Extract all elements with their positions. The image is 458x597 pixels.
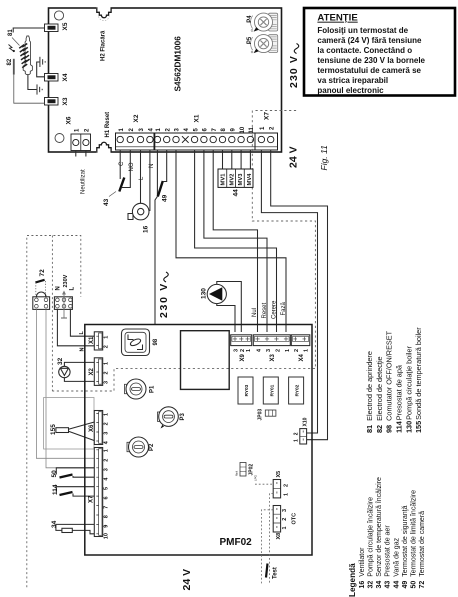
svg-text:98Comutator OFF/ON/RESET: 98Comutator OFF/ON/RESET — [385, 330, 394, 433]
svg-text:114Presostat de apă: 114Presostat de apă — [395, 364, 404, 433]
wire 72 left terminal to X7 pin2 PMF02 — [36, 309, 94, 458]
wire X2 pin2 NO — [122, 150, 131, 188]
wire mains L to PMF02 X1 pin1 — [70, 309, 94, 336]
svg-text:1: 1 — [284, 493, 290, 496]
fan 16 — [128, 203, 149, 220]
svg-text:X3: X3 — [62, 97, 69, 105]
connector X9 PMF02 — [231, 335, 252, 346]
svg-text:panoul electronic: panoul electronic — [317, 86, 384, 95]
left dashed enclosure — [27, 236, 81, 588]
svg-text:Fig. 11: Fig. 11 — [319, 145, 329, 171]
wire X1 pin7 to Nul — [213, 150, 257, 332]
svg-text:X6: X6 — [66, 116, 73, 124]
wire X2 pin4 N to fan — [149, 150, 151, 211]
svg-text:24 V: 24 V — [181, 569, 193, 591]
relay RY01 — [263, 377, 278, 404]
connector X8 OTC — [273, 506, 280, 533]
svg-text:va strica ireparabil: va strica ireparabil — [317, 76, 388, 85]
switch 98 OFF/ON/RESET — [122, 329, 150, 356]
svg-text:MV4: MV4 — [247, 173, 253, 186]
potentiometer P2 — [127, 437, 149, 457]
limit thermostat 50 loop — [56, 468, 95, 475]
svg-text:49: 49 — [162, 194, 169, 202]
leader line from 81 to electrode — [12, 38, 20, 46]
svg-text:44Vană de gaz: 44Vană de gaz — [393, 537, 400, 588]
svg-text:3: 3 — [104, 432, 110, 435]
potentiometer P1 — [125, 379, 147, 399]
connector X1 PMF02 — [94, 332, 102, 350]
svg-text:98: 98 — [153, 338, 159, 345]
wire X2 pin3 L to fan — [140, 150, 142, 204]
wire 82 to X3 — [14, 75, 45, 104]
svg-text:Legendă: Legendă — [348, 563, 357, 597]
svg-text:X6: X6 — [89, 424, 95, 432]
svg-text:24 V: 24 V — [288, 146, 300, 168]
svg-text:50Termostat de limită încălzir: 50Termostat de limită încălzire — [411, 490, 418, 589]
svg-text:Folosiţi un termostat de: Folosiţi un termostat de — [317, 26, 408, 35]
svg-text:130: 130 — [201, 288, 208, 299]
spark arrow symbol — [9, 45, 15, 53]
svg-text:8: 8 — [104, 515, 110, 518]
gas valve MV1-MV4 box 44 — [218, 169, 253, 187]
svg-text:5: 5 — [104, 487, 110, 490]
svg-text:2: 2 — [294, 432, 300, 435]
svg-text:tensiune de 230 V la bornele: tensiune de 230 V la bornele — [317, 56, 425, 65]
svg-text:X1: X1 — [89, 336, 95, 344]
connector X5 PMF02 — [273, 480, 280, 498]
X7 PMF02 pin numbers — [104, 449, 110, 539]
114 blade — [60, 492, 73, 495]
wire 49 to PMF02 edge — [155, 197, 157, 325]
svg-text:Cerere: Cerere — [271, 300, 277, 319]
svg-text:10: 10 — [240, 126, 246, 133]
terminal strip X1 — [154, 133, 255, 150]
svg-text:H2 Flacără: H2 Flacără — [101, 30, 107, 61]
svg-text:OTC: OTC — [292, 513, 298, 525]
svg-text:2: 2 — [284, 484, 290, 487]
wire X1 pin6 to Reset — [204, 150, 267, 332]
svg-text:82Electrod de detecţie: 82Electrod de detecţie — [375, 356, 384, 433]
detection electrode 82 — [13, 59, 15, 75]
sensor V wires to X6 pins 2 and 4 — [69, 422, 95, 441]
svg-text:1: 1 — [303, 349, 309, 352]
svg-text:16Ventilator: 16Ventilator — [359, 547, 366, 589]
connector X2 PMF02 — [94, 358, 102, 386]
dashed wire X8 to Test — [261, 510, 273, 584]
wire X4 to ground — [37, 62, 45, 77]
svg-text:P3: P3 — [180, 412, 186, 420]
svg-text:9: 9 — [104, 525, 110, 528]
wire X1 pin2 — [163, 150, 167, 182]
legend bottom items — [359, 477, 426, 589]
34 resistor body — [62, 528, 72, 532]
svg-text:2: 2 — [104, 371, 110, 374]
svg-text:X5: X5 — [62, 22, 69, 30]
svg-text:X10: X10 — [303, 417, 309, 426]
svg-text:ATENŢIE: ATENŢIE — [317, 13, 358, 24]
svg-text:X9: X9 — [240, 353, 246, 361]
PMF02 board outline — [85, 325, 312, 556]
terminal strip X2 — [116, 133, 155, 150]
svg-text:X7: X7 — [89, 495, 95, 503]
LED H2 Flacara notch on top edge — [96, 7, 112, 21]
electrode thread hatching — [19, 44, 29, 68]
svg-text:3: 3 — [282, 509, 288, 512]
svg-text:P5: P5 — [247, 36, 253, 44]
boiler pump 130 — [207, 284, 226, 303]
connector X6 terminals — [71, 134, 91, 151]
svg-text:P1: P1 — [150, 385, 156, 393]
svg-text:Nul: Nul — [252, 308, 258, 317]
svg-text:LPG: LPG — [254, 474, 258, 481]
potentiometer P5 — [251, 35, 278, 54]
svg-text:2: 2 — [240, 349, 246, 352]
svg-text:1: 1 — [246, 349, 252, 352]
connector X5 on left edge — [45, 24, 59, 32]
wire pump32 bottom to X2 pin3 — [64, 378, 94, 382]
svg-text:RY03: RY03 — [244, 384, 250, 396]
svg-text:PMF02: PMF02 — [220, 537, 253, 548]
svg-text:fără: fără — [235, 470, 239, 476]
svg-text:Fază: Fază — [281, 301, 287, 315]
test button blade — [266, 564, 268, 578]
svg-text:230 V: 230 V — [288, 55, 300, 88]
svg-text:32Pompă circulaţie încălzire: 32Pompă circulaţie încălzire — [368, 497, 375, 589]
svg-text:16: 16 — [143, 225, 150, 233]
svg-text:1: 1 — [294, 439, 300, 442]
mains supply arrow — [61, 291, 67, 319]
svg-text:1: 1 — [285, 349, 291, 352]
svg-text:X8: X8 — [276, 533, 282, 540]
svg-text:la contacte. Conectând o: la contacte. Conectând o — [317, 46, 412, 55]
svg-text:X4: X4 — [62, 73, 69, 81]
72 dotted legs — [36, 281, 46, 297]
50 blade — [60, 475, 73, 478]
svg-text:10: 10 — [104, 533, 110, 539]
heating sensor 34 loop — [56, 524, 95, 530]
50 wire to pin4 — [73, 476, 95, 477]
svg-text:MV1: MV1 — [221, 173, 227, 186]
legend right: 81 82 98 114 130 155 — [365, 327, 423, 433]
svg-text:50: 50 — [51, 470, 58, 478]
svg-text:34Senzor de temperatură încălz: 34Senzor de temperatură încălzire — [376, 477, 383, 589]
terminal strip X7 of control unit — [255, 133, 278, 150]
relay RY02 — [289, 377, 304, 404]
heating pump 32 — [59, 366, 70, 377]
svg-text:155Sondă de temperatură boiler: 155Sondă de temperatură boiler — [414, 327, 423, 433]
room thermostat 72 blade — [35, 280, 44, 283]
leader 43 — [109, 192, 116, 197]
svg-text:Test: Test — [273, 567, 279, 579]
svg-text:H1 Reset: H1 Reset — [105, 112, 111, 138]
dashed wire X5 pin1 to Test — [269, 493, 273, 583]
svg-text:2: 2 — [275, 349, 281, 352]
mounting hole top-left — [54, 11, 63, 20]
thin box around sensor 155 — [44, 398, 94, 450]
svg-text:155: 155 — [50, 424, 57, 435]
svg-text:3: 3 — [104, 468, 110, 471]
connector X4 PMF02 — [291, 335, 310, 346]
wire pump32 top to X2 pin1 — [64, 362, 94, 366]
connector X4 on left edge — [45, 74, 59, 82]
svg-text:cameră (24 V) fără tensiune: cameră (24 V) fără tensiune — [317, 36, 422, 45]
X2 pin numbers — [119, 128, 155, 132]
svg-text:2: 2 — [104, 345, 110, 348]
wire 72 right terminal to X7 pin3 PMF02 — [46, 309, 95, 467]
svg-text:termostatului de cameră se: termostatului de cameră se — [317, 66, 421, 75]
wire X5 to ignition electrode — [13, 28, 44, 33]
svg-text:230 V: 230 V — [158, 282, 170, 318]
svg-text:N: N — [56, 286, 62, 290]
wire electrode body to ground lower — [28, 75, 37, 90]
svg-text:MV2: MV2 — [229, 174, 235, 186]
svg-text:JP02: JP02 — [249, 464, 255, 476]
bridge arc over 72 block — [36, 292, 46, 297]
wire mains N to PMF02 X1 pin2 — [57, 309, 94, 345]
svg-text:82: 82 — [7, 58, 13, 65]
wire X7 pin2 to X10 — [271, 150, 328, 440]
dashed separator 230V/24V — [52, 111, 315, 392]
control unit S4562DM1006 outline — [49, 8, 282, 152]
wire pump bottom to X9 pin3 — [217, 304, 235, 332]
svg-text:3: 3 — [104, 381, 110, 384]
wire X1 pin3 to Faza — [176, 150, 286, 332]
svg-text:L: L — [69, 287, 75, 291]
svg-text:RY01: RY01 — [269, 384, 275, 396]
svg-text:72: 72 — [39, 269, 46, 277]
relay RY03 — [238, 377, 253, 404]
svg-text:X5: X5 — [276, 471, 282, 478]
mains terminal block 230V — [54, 297, 72, 310]
34 wire to pin10 — [72, 530, 95, 533]
X1 pin numbers — [156, 126, 255, 133]
svg-text:2: 2 — [294, 349, 300, 352]
connector X7 PMF02 — [94, 448, 102, 537]
svg-text:130Pompă circulaţie boiler: 130Pompă circulaţie boiler — [404, 345, 413, 433]
svg-text:49Termostat de siguranţă: 49Termostat de siguranţă — [402, 505, 409, 588]
ground symbol lower — [37, 84, 42, 94]
potentiometer P4 — [251, 13, 278, 32]
svg-text:43: 43 — [103, 198, 110, 206]
connector X10 — [300, 429, 307, 444]
svg-text:3: 3 — [234, 349, 240, 352]
air pressure switch 43 blade — [119, 178, 124, 192]
wire X7 pin1 to X10 — [261, 150, 317, 433]
svg-text:1: 1 — [104, 362, 110, 365]
warning box ATENTIE — [304, 8, 455, 96]
wire X1 pin1 — [156, 150, 158, 197]
svg-text:Neutilizat: Neutilizat — [81, 169, 87, 194]
reset button H1 notch on bottom edge — [96, 142, 112, 153]
svg-text:3: 3 — [266, 349, 272, 352]
svg-text:X7: X7 — [264, 112, 271, 120]
72 terminal block — [33, 297, 50, 310]
svg-text:X2: X2 — [133, 114, 140, 122]
water pressure switch 114 loop — [56, 487, 95, 492]
connector X6 PMF02 — [94, 411, 102, 445]
svg-text:Reset: Reset — [262, 302, 268, 318]
wire pump top to X9 pin2 — [217, 282, 242, 333]
114 wire to pin6 — [73, 494, 95, 497]
X6 stub wires — [76, 151, 86, 157]
jumper JP03 — [265, 410, 276, 416]
svg-text:2: 2 — [104, 459, 110, 462]
wires X1 pins 8-11 to gas valve — [223, 150, 251, 169]
svg-text:1: 1 — [104, 449, 110, 452]
svg-text:72Termostat de cameră: 72Termostat de cameră — [419, 511, 426, 589]
connector X3 PMF02 — [253, 335, 290, 346]
boiler sensor 155 probe — [56, 428, 69, 433]
svg-text:P4: P4 — [247, 15, 253, 23]
dashed wire X5 pin2 stub — [255, 483, 273, 485]
svg-text:230V: 230V — [63, 274, 69, 287]
safety thermostat 49 blade — [158, 181, 163, 197]
mounting hole bottom-left — [55, 134, 64, 143]
transformer block — [181, 331, 230, 390]
wire X2 pin1 C — [119, 150, 121, 179]
svg-text:2: 2 — [104, 422, 110, 425]
svg-text:P2: P2 — [149, 443, 155, 451]
ignition electrode 81 (spark plug body) — [23, 36, 32, 75]
svg-text:2: 2 — [282, 518, 288, 521]
ground symbol upper — [40, 57, 45, 67]
potentiometer P3 — [158, 407, 179, 429]
svg-text:X2: X2 — [89, 367, 95, 375]
svg-text:81Electrod de aprindere: 81Electrod de aprindere — [365, 351, 374, 433]
connector X3 on left edge — [45, 98, 59, 106]
svg-text:7: 7 — [104, 506, 110, 509]
svg-text:X3: X3 — [270, 353, 276, 361]
svg-text:JP03: JP03 — [258, 409, 264, 421]
svg-text:MV3: MV3 — [238, 173, 244, 186]
svg-text:1: 1 — [104, 413, 110, 416]
svg-text:32: 32 — [57, 357, 64, 365]
svg-text:S4562DM1006: S4562DM1006 — [173, 36, 183, 92]
wire X1 pin5 to Cerere — [195, 150, 277, 332]
svg-text:114: 114 — [52, 484, 59, 495]
svg-text:44: 44 — [233, 189, 240, 197]
svg-text:RY02: RY02 — [295, 384, 301, 396]
jumper JP02 — [240, 463, 246, 477]
svg-text:1: 1 — [104, 336, 110, 339]
svg-text:81: 81 — [8, 29, 14, 36]
svg-text:X4: X4 — [299, 353, 305, 361]
svg-text:X1: X1 — [194, 114, 201, 122]
svg-text:6: 6 — [104, 496, 110, 499]
svg-text:1: 1 — [282, 526, 288, 529]
svg-text:34: 34 — [51, 520, 58, 528]
